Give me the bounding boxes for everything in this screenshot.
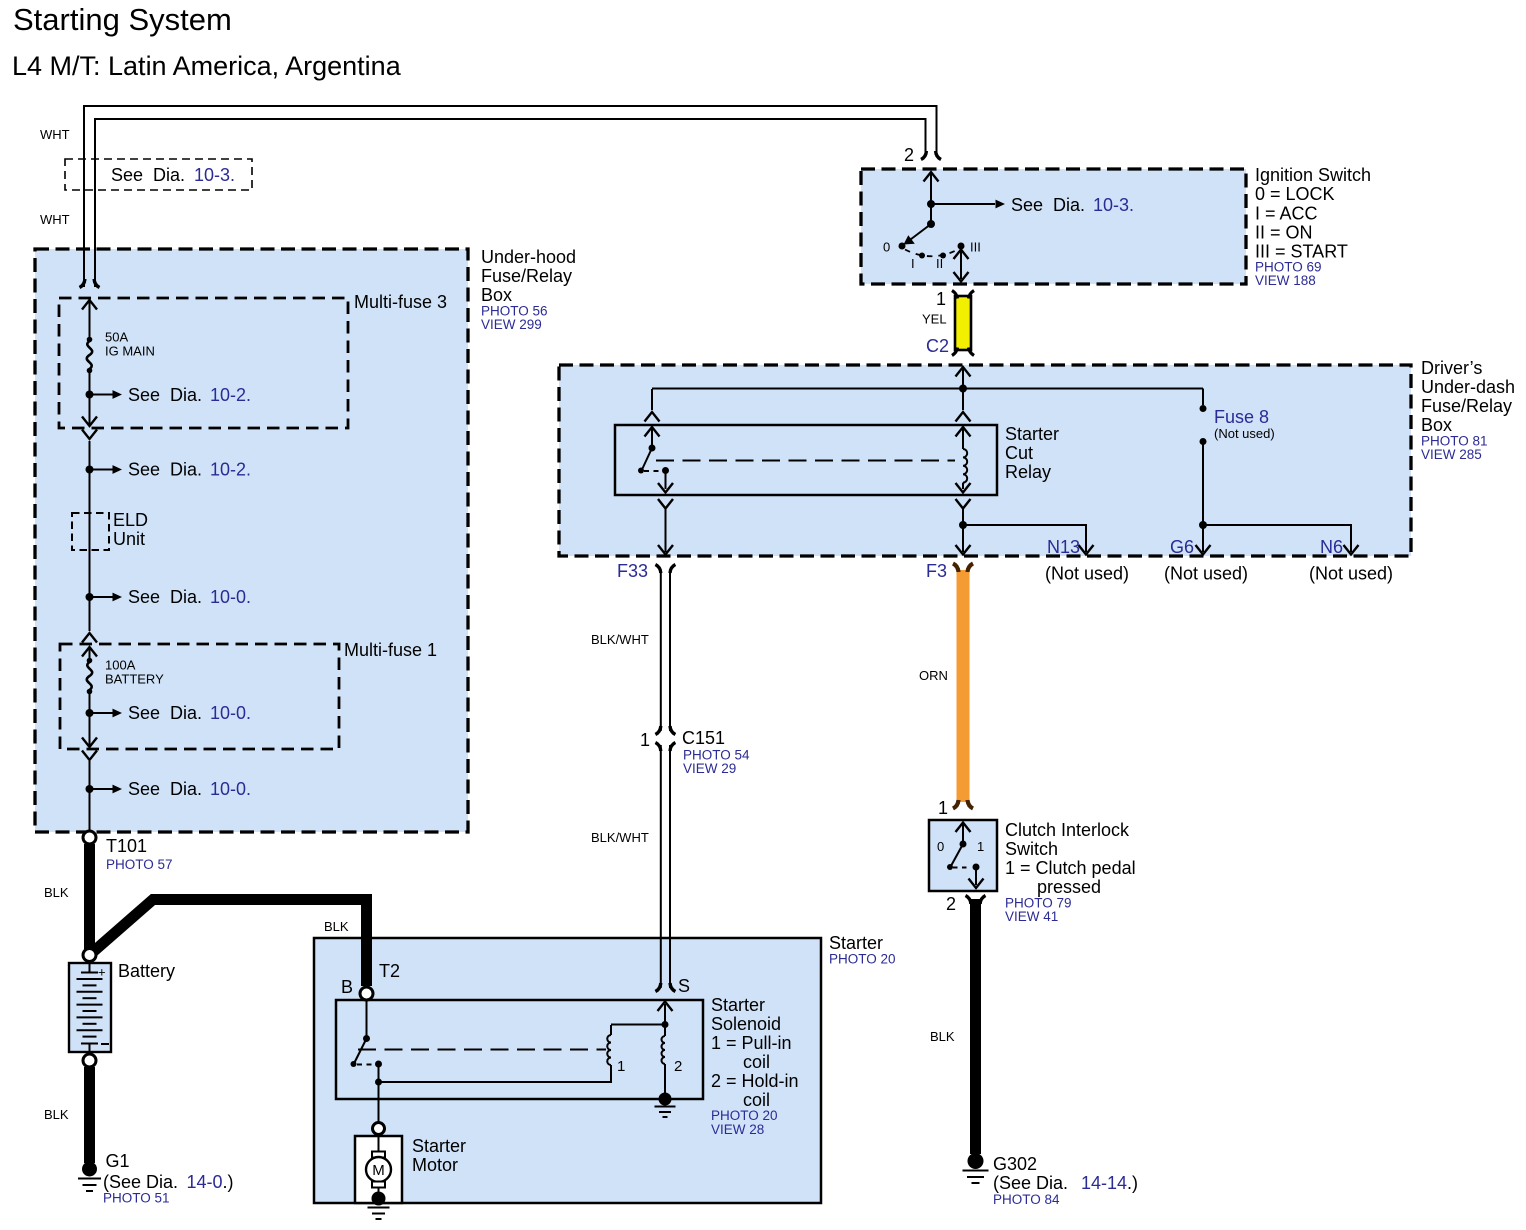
clutch switch interior	[956, 823, 971, 833]
arrow into Multi-fuse 3	[82, 300, 97, 310]
svg-text:Starting System: Starting System	[13, 2, 232, 37]
See Dia. 10-3. arrow	[931, 203, 995, 205]
thick BLK wire branch to starter B terminal	[94, 900, 367, 987]
svg-text:PHOTO 20: PHOTO 20	[829, 952, 896, 967]
svg-text:Box: Box	[1421, 415, 1452, 435]
svg-text:1: 1	[936, 289, 946, 309]
Starter box	[314, 938, 821, 1203]
Driver's Under-dash Fuse/Relay Box	[559, 365, 1411, 556]
Starter Solenoid box	[336, 1000, 703, 1099]
contact III	[958, 243, 965, 250]
arrow out of Multi-fuse 3	[82, 417, 97, 427]
solenoid dashed actuation line	[358, 1049, 606, 1051]
svg-text:Ignition Switch: Ignition Switch	[1255, 165, 1371, 185]
arrow up to S terminal	[664, 1004, 666, 1023]
svg-text:Fuse 8: Fuse 8	[1214, 407, 1269, 427]
svg-text:Motor: Motor	[412, 1155, 458, 1175]
motor M	[366, 1157, 391, 1182]
svg-text:1: 1	[977, 839, 984, 854]
wire	[89, 761, 91, 830]
svg-text:2: 2	[904, 145, 914, 165]
svg-text:M: M	[372, 1162, 385, 1179]
svg-text:G302: G302	[993, 1154, 1037, 1174]
svg-text:F33: F33	[617, 561, 648, 581]
Multi-fuse 3 dashed box	[59, 298, 348, 428]
Multi-fuse 1 dashed box	[60, 644, 339, 749]
terminal T101	[83, 831, 96, 844]
svg-text:II: II	[936, 256, 943, 271]
dashed reference box See Dia. 10-3.	[65, 159, 252, 190]
Ignition Switch box	[861, 169, 1246, 284]
svg-text:Starter: Starter	[412, 1136, 466, 1156]
svg-text:(Not used): (Not used)	[1214, 426, 1275, 441]
svg-text:ORN: ORN	[919, 668, 948, 683]
relay switch output to F33	[658, 499, 673, 509]
svg-text:2: 2	[674, 1058, 682, 1075]
svg-text:Clutch Interlock: Clutch Interlock	[1005, 820, 1130, 840]
hold-in coil 2	[664, 1026, 666, 1036]
wire	[89, 693, 91, 745]
ELD Unit dashed box	[72, 513, 109, 550]
svg-text:PHOTO 51: PHOTO 51	[103, 1191, 170, 1206]
svg-text:1: 1	[640, 730, 650, 750]
wire ORN F3 to clutch interlock switch	[957, 570, 970, 802]
Starter Motor box	[355, 1136, 402, 1203]
svg-text:0: 0	[883, 240, 890, 255]
thick BLK wire clutch switch to G302	[970, 899, 981, 1154]
svg-text:PHOTO 57: PHOTO 57	[106, 857, 173, 872]
Starter Cut Relay box	[615, 425, 997, 495]
thick BLK wire T101 to battery junction	[84, 844, 95, 949]
svg-text:BLK/WHT: BLK/WHT	[591, 830, 649, 845]
motor brush	[372, 1152, 385, 1158]
svg-text:See Dia.10-0.: See Dia.10-0.	[128, 703, 251, 723]
solenoid switch from B	[366, 1000, 368, 1037]
motor brush	[372, 1182, 385, 1188]
ground G302	[968, 1153, 984, 1169]
svg-text:Box: Box	[481, 285, 512, 305]
svg-text:Battery: Battery	[118, 961, 175, 981]
wire WHT double-line from under-hood box top-left up and across to ignition switch	[84, 106, 937, 287]
svg-text:WHT: WHT	[40, 127, 70, 142]
svg-text:IG MAIN: IG MAIN	[105, 344, 155, 359]
pull-in coil 1	[607, 1035, 611, 1065]
svg-text:I: I	[911, 256, 915, 271]
branch down to relay coil	[962, 389, 964, 410]
Under-hood Fuse/Relay Box	[35, 249, 468, 832]
svg-text:B: B	[341, 977, 353, 997]
branch down to relay switch	[651, 389, 653, 410]
svg-text:Fuse/Relay: Fuse/Relay	[481, 266, 572, 286]
svg-text:pressed: pressed	[1037, 877, 1101, 897]
node with See Dia. 10-2. arrow	[86, 391, 94, 399]
switch blade toward 0	[927, 220, 935, 228]
svg-text:BLK/WHT: BLK/WHT	[591, 632, 649, 647]
svg-text:Multi-fuse 3: Multi-fuse 3	[354, 292, 447, 312]
Clutch Interlock Switch box	[929, 820, 997, 891]
svg-text:1 = Clutch pedal: 1 = Clutch pedal	[1005, 858, 1136, 878]
contact arc 0-I-II-III	[905, 250, 958, 257]
thick BLK wire battery to G1	[84, 1067, 95, 1163]
solenoid ground	[659, 1093, 672, 1106]
wire BLK/WHT double-line C151 to starter S	[660, 745, 662, 988]
svg-text:100A: 100A	[105, 658, 136, 673]
svg-text:Solenoid: Solenoid	[711, 1014, 781, 1034]
svg-text:I = ACC: I = ACC	[1255, 204, 1318, 224]
svg-text:(See Dia.14-14.): (See Dia.14-14.)	[993, 1173, 1138, 1193]
svg-text:See Dia.10-3.: See Dia.10-3.	[111, 165, 235, 185]
svg-text:(Not used): (Not used)	[1045, 564, 1129, 584]
svg-text:G1: G1	[106, 1151, 130, 1171]
ground G1	[82, 1162, 97, 1177]
svg-text:WHT: WHT	[40, 212, 70, 227]
Fuse 8 (not used)	[1202, 389, 1204, 406]
wire BLK/WHT double-line F33 to C151	[660, 570, 662, 731]
arrow into Multi-fuse 1	[82, 633, 97, 643]
svg-text:PHOTO 20: PHOTO 20	[711, 1108, 778, 1123]
relay actuation dashed line	[656, 460, 955, 462]
svg-text:Switch: Switch	[1005, 839, 1058, 859]
connector cap at under-hood end of WHT wire	[80, 279, 100, 288]
svg-text:0: 0	[937, 839, 944, 854]
svg-text:Relay: Relay	[1005, 462, 1051, 482]
output line to terminal 1	[954, 250, 969, 260]
svg-text:II = ON: II = ON	[1255, 223, 1313, 243]
svg-text:T2: T2	[379, 961, 400, 981]
svg-text:T101: T101	[106, 836, 147, 856]
relay switch	[645, 427, 660, 437]
svg-text:III: III	[970, 240, 981, 255]
svg-text:VIEW 41: VIEW 41	[1005, 909, 1058, 924]
pull-in coil circuit	[375, 1079, 382, 1086]
fuse 50A IG MAIN	[87, 337, 93, 343]
svg-text:PHOTO 84: PHOTO 84	[993, 1192, 1060, 1207]
svg-text:Fuse/Relay: Fuse/Relay	[1421, 396, 1512, 416]
wire solenoid to starter motor	[378, 1083, 380, 1122]
svg-text:Multi-fuse 1: Multi-fuse 1	[344, 640, 437, 660]
svg-text:Under-hood: Under-hood	[481, 247, 576, 267]
svg-text:See Dia.10-0.: See Dia.10-0.	[128, 587, 251, 607]
C2 entry arrow	[956, 367, 971, 377]
svg-text:Starter: Starter	[711, 995, 765, 1015]
svg-text:0 = LOCK: 0 = LOCK	[1255, 184, 1335, 204]
svg-text:Unit: Unit	[113, 529, 145, 549]
svg-text:coil: coil	[743, 1052, 770, 1072]
svg-text:Under-dash: Under-dash	[1421, 377, 1515, 397]
relay coil output to F3	[956, 499, 971, 509]
svg-text:C151: C151	[682, 728, 725, 748]
svg-text:S: S	[678, 976, 690, 996]
connector YEL C2	[955, 296, 971, 350]
svg-text:N6: N6	[1320, 537, 1343, 557]
svg-text:VIEW 29: VIEW 29	[683, 761, 736, 776]
svg-text:L4 M/T: Latin America, Argenti: L4 M/T: Latin America, Argentina	[12, 51, 402, 81]
battery negative terminal	[83, 1054, 96, 1067]
wire	[89, 441, 91, 631]
svg-text:ELD: ELD	[113, 510, 148, 530]
svg-text:See Dia.10-0.: See Dia.10-0.	[128, 779, 251, 799]
svg-text:VIEW 28: VIEW 28	[711, 1122, 764, 1137]
starter motor ground	[372, 1192, 386, 1206]
branch to N6	[1203, 525, 1351, 552]
svg-text:N13: N13	[1047, 537, 1080, 557]
relay coil	[956, 427, 971, 437]
svg-text:See Dia.10-2.: See Dia.10-2.	[128, 385, 251, 405]
svg-text:coil: coil	[743, 1090, 770, 1110]
svg-text:1: 1	[617, 1058, 625, 1075]
svg-text:Driver’s: Driver’s	[1421, 358, 1482, 378]
svg-text:(Not used): (Not used)	[1164, 564, 1248, 584]
svg-text:50A: 50A	[105, 330, 128, 345]
svg-text:Starter: Starter	[1005, 424, 1059, 444]
svg-text:(See Dia.14-0.): (See Dia.14-0.)	[103, 1172, 234, 1192]
svg-text:2 = Hold-in: 2 = Hold-in	[711, 1071, 799, 1091]
svg-text:+: +	[98, 965, 106, 980]
node with See Dia. 10-0. arrow	[86, 709, 94, 717]
svg-text:BATTERY: BATTERY	[105, 672, 164, 687]
svg-text:1 = Pull-in: 1 = Pull-in	[711, 1033, 792, 1053]
svg-text:F3: F3	[926, 561, 947, 581]
node with See Dia. 10-2. arrow	[86, 466, 94, 474]
svg-text:See Dia.10-3.: See Dia.10-3.	[1011, 195, 1134, 215]
distribution wire	[652, 388, 1203, 390]
svg-text:BLK: BLK	[324, 919, 349, 934]
svg-text:(Not used): (Not used)	[1309, 564, 1393, 584]
svg-text:G6: G6	[1170, 537, 1194, 557]
svg-text:Cut: Cut	[1005, 443, 1033, 463]
contact 0	[899, 243, 906, 250]
svg-text:See Dia.10-2.: See Dia.10-2.	[128, 460, 251, 480]
svg-text:VIEW 299: VIEW 299	[481, 317, 542, 332]
junction at battery positive	[83, 949, 96, 962]
svg-text:1: 1	[938, 798, 948, 818]
node with See Dia. 10-0. arrow	[86, 785, 94, 793]
fuse 100A BATTERY	[87, 658, 93, 664]
battery	[69, 963, 111, 1052]
wire	[89, 372, 91, 424]
ignition interior: feed arrow	[924, 172, 939, 182]
svg-text:2: 2	[946, 894, 956, 914]
svg-text:VIEW 188: VIEW 188	[1255, 273, 1316, 288]
arrow out of Multi-fuse 1	[82, 738, 97, 748]
svg-text:BLK: BLK	[44, 1107, 69, 1122]
svg-text:BLK: BLK	[930, 1029, 955, 1044]
svg-text:Starter: Starter	[829, 933, 883, 953]
svg-text:VIEW 285: VIEW 285	[1421, 447, 1482, 462]
svg-text:YEL: YEL	[922, 312, 947, 327]
connector cap at ignition end of WHT wire	[921, 151, 941, 160]
node with See Dia. 10-0. arrow	[86, 593, 94, 601]
svg-text:BLK: BLK	[44, 885, 69, 900]
svg-text:C2: C2	[926, 336, 949, 356]
svg-text:III = START: III = START	[1255, 242, 1348, 262]
branch to N13	[963, 525, 1086, 552]
